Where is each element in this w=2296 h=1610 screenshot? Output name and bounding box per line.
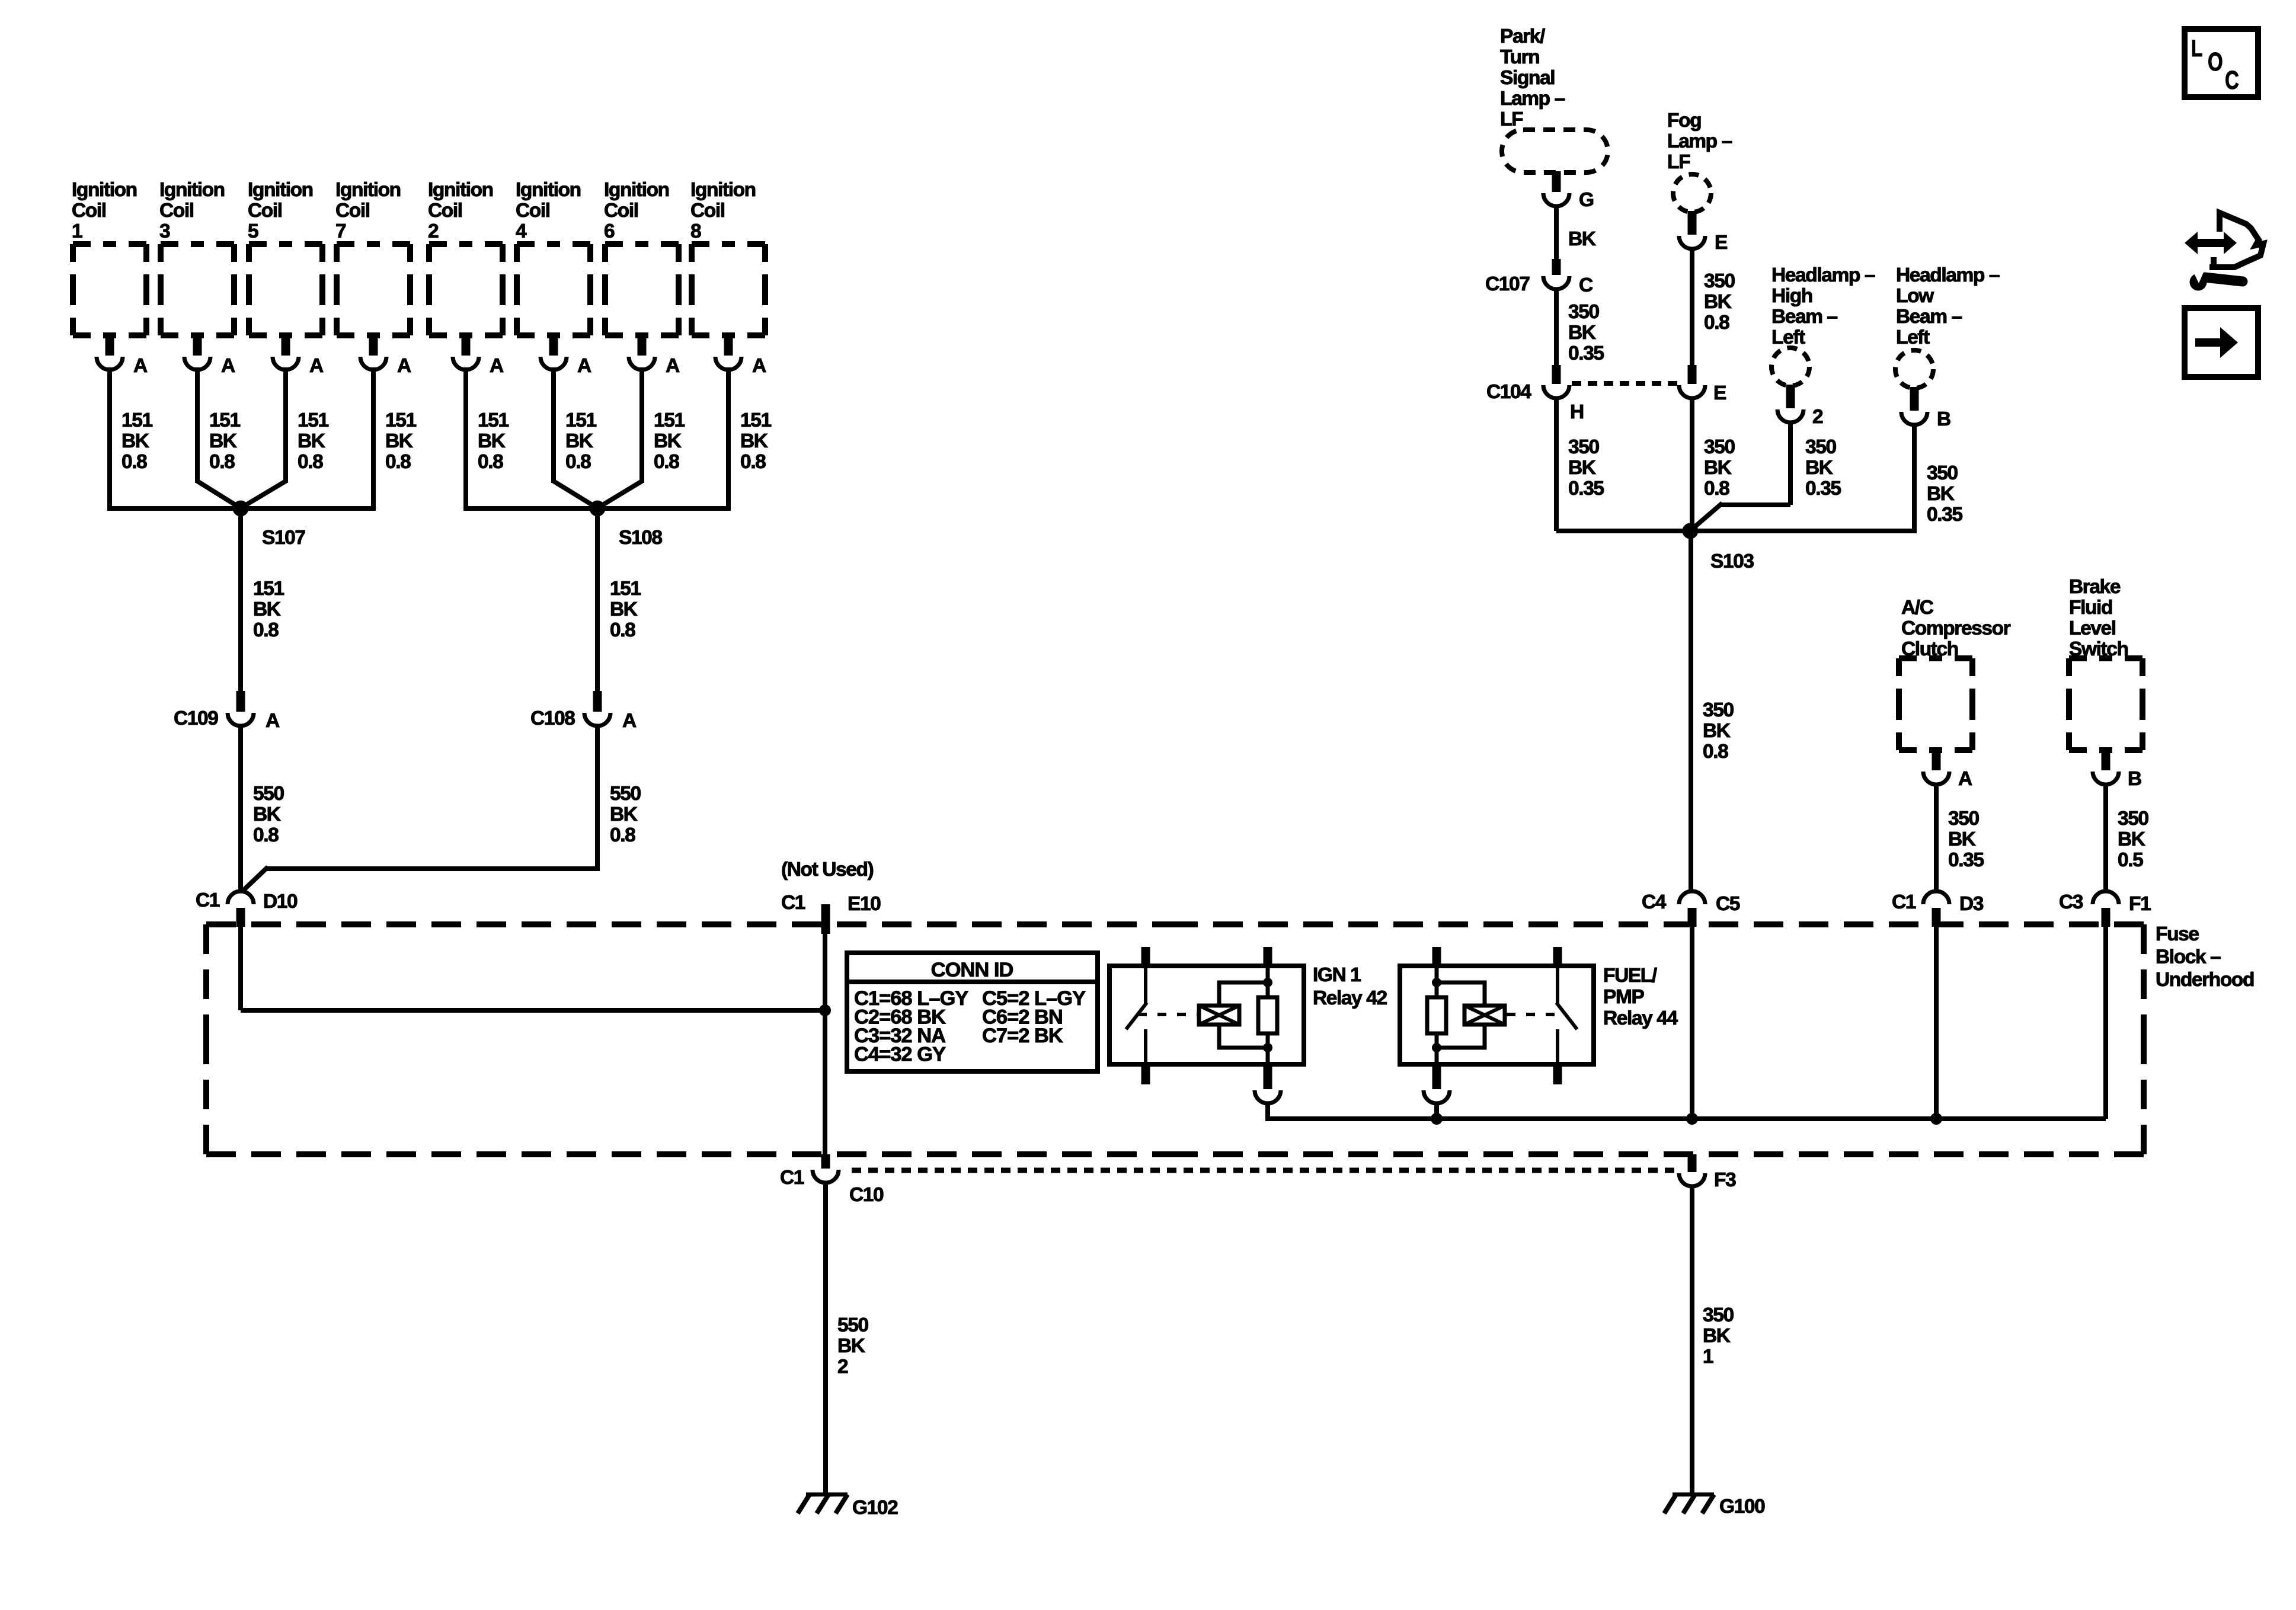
label 151 BK 0.8 (coil 7) bbox=[385, 409, 416, 473]
svg-text:4: 4 bbox=[516, 220, 527, 242]
svg-text:Fuse: Fuse bbox=[2156, 923, 2199, 945]
svg-text:Level: Level bbox=[2069, 617, 2116, 639]
svg-text:A: A bbox=[266, 710, 280, 732]
svg-text:LF: LF bbox=[1667, 151, 1690, 173]
ignition coil 7 pin A bbox=[360, 335, 411, 377]
relay IGN1 pin 85 cup bbox=[1255, 1064, 1281, 1103]
svg-text:0.8: 0.8 bbox=[298, 451, 323, 473]
wire F1 into block bbox=[2103, 924, 2108, 1119]
ignition coil 1 pin A bbox=[97, 335, 148, 377]
label 151 BK 0.8 (coil 1) bbox=[121, 409, 152, 473]
svg-text:High: High bbox=[1771, 285, 1812, 307]
connector C4/C5 bbox=[1642, 891, 1740, 927]
svg-text:BK: BK bbox=[209, 430, 237, 452]
park/turn signal lamp label bbox=[1500, 25, 1565, 130]
svg-text:Headlamp –: Headlamp – bbox=[1896, 264, 2000, 286]
svg-text:D10: D10 bbox=[263, 891, 298, 913]
headlamp - high beam - left bbox=[1771, 348, 1809, 386]
svg-text:BK: BK bbox=[740, 430, 768, 452]
label 151 BK 0.8 (C108) bbox=[610, 578, 641, 641]
svg-text:151: 151 bbox=[385, 409, 416, 431]
svg-text:BK: BK bbox=[610, 804, 638, 825]
relay FUEL pin 85 cup bbox=[1424, 1064, 1450, 1103]
connector C1/D10 bbox=[196, 889, 298, 927]
label 350 BK 0.5 (brake) bbox=[2118, 808, 2148, 871]
svg-text:2: 2 bbox=[837, 1356, 848, 1378]
ignition coil 1 bbox=[73, 244, 146, 335]
svg-text:L: L bbox=[2191, 35, 2202, 62]
svg-text:A: A bbox=[1958, 768, 1972, 790]
svg-text:BK: BK bbox=[298, 430, 325, 452]
fuse block label bbox=[2156, 923, 2254, 991]
node bus-D3 bbox=[1930, 1113, 1942, 1125]
svg-text:H: H bbox=[1570, 401, 1584, 423]
svg-text:Underhood: Underhood bbox=[2156, 969, 2254, 991]
label 350 BK 0.35 (A/C) bbox=[1948, 808, 1984, 871]
svg-text:BK: BK bbox=[253, 598, 281, 620]
connector C1/E10 (not used pin) bbox=[781, 892, 881, 934]
svg-text:0.8: 0.8 bbox=[1703, 741, 1728, 763]
relay FUEL node top bbox=[1432, 978, 1441, 987]
ignition coil 4 pin A bbox=[541, 335, 591, 377]
svg-text:C4=32 GY: C4=32 GY bbox=[854, 1044, 946, 1066]
svg-text:1: 1 bbox=[1703, 1346, 1713, 1368]
svg-text:F3: F3 bbox=[1714, 1169, 1736, 1191]
ignition coil 8 label bbox=[690, 179, 756, 242]
relay IGN1 switch bbox=[1126, 966, 1147, 1064]
relay FUEL coil bbox=[1464, 1006, 1505, 1025]
svg-text:Coil: Coil bbox=[248, 200, 282, 222]
svg-text:151: 151 bbox=[740, 409, 771, 431]
svg-text:PMP: PMP bbox=[1603, 986, 1644, 1008]
wire C10 to G102 bbox=[823, 1181, 828, 1494]
svg-text:0.8: 0.8 bbox=[654, 451, 679, 473]
svg-text:0.8: 0.8 bbox=[253, 824, 279, 846]
svg-text:Ignition: Ignition bbox=[72, 179, 137, 201]
svg-text:O: O bbox=[2208, 48, 2223, 77]
connector C3/F1 bbox=[2059, 891, 2151, 927]
svg-text:0.8: 0.8 bbox=[385, 451, 411, 473]
svg-text:FUEL/: FUEL/ bbox=[1603, 965, 1657, 987]
relay FUEL pin top-right bbox=[1553, 947, 1562, 966]
relay IGN1 node bottom bbox=[1263, 1043, 1272, 1052]
wire C109 to D10 bbox=[238, 724, 243, 892]
svg-text:0.8: 0.8 bbox=[209, 451, 235, 473]
label 350 BK 0.35 (low) bbox=[1927, 462, 1962, 526]
ignition coil 4 label bbox=[516, 179, 581, 242]
fog lamp - LF bbox=[1673, 174, 1711, 212]
svg-text:Lamp –: Lamp – bbox=[1500, 88, 1565, 110]
svg-text:1: 1 bbox=[72, 220, 82, 242]
svg-text:Relay 42: Relay 42 bbox=[1313, 987, 1387, 1009]
svg-text:C: C bbox=[2225, 66, 2239, 95]
label 151 BK 0.8 (coil 3) bbox=[209, 409, 240, 473]
svg-text:Coil: Coil bbox=[159, 200, 194, 222]
CONN ID row 4 bbox=[854, 1044, 946, 1066]
svg-text:G: G bbox=[1579, 189, 1594, 211]
relay FUEL pin top-left bbox=[1432, 947, 1441, 966]
wire C104 H to S103 bbox=[1556, 396, 1690, 531]
relay IGN1 pin top-right bbox=[1264, 947, 1272, 966]
relay IGN1 coil link (dashed) bbox=[1138, 1013, 1199, 1016]
svg-text:Coil: Coil bbox=[72, 200, 106, 222]
svg-text:E: E bbox=[1713, 382, 1726, 404]
ignition coil 5 label bbox=[248, 179, 313, 242]
svg-text:BK: BK bbox=[837, 1335, 865, 1357]
label 151 BK 0.8 (C109) bbox=[253, 578, 284, 641]
svg-text:Beam –: Beam – bbox=[1896, 306, 1962, 328]
svg-text:2: 2 bbox=[1812, 406, 1823, 428]
headlamp low beam label bbox=[1896, 264, 2000, 348]
connector C104 link (dashed) bbox=[1572, 381, 1678, 386]
svg-text:0.35: 0.35 bbox=[1948, 849, 1984, 871]
svg-text:Ignition: Ignition bbox=[690, 179, 756, 201]
wire C5 into block bbox=[1690, 924, 1694, 1119]
ignition coil 2 label bbox=[428, 179, 493, 242]
svg-text:0.8: 0.8 bbox=[1704, 312, 1729, 334]
svg-text:Ignition: Ignition bbox=[428, 179, 493, 201]
svg-text:Ignition: Ignition bbox=[604, 179, 669, 201]
node bus-FUEL bbox=[1431, 1113, 1443, 1125]
wire C108 drop bbox=[595, 508, 600, 691]
svg-text:C108: C108 bbox=[530, 708, 575, 729]
ignition coil 6 label bbox=[604, 179, 669, 242]
connector C108 pin A bbox=[530, 691, 637, 732]
svg-text:350: 350 bbox=[1703, 699, 1734, 721]
svg-text:BK: BK bbox=[478, 430, 506, 452]
ignition coil 1 label bbox=[72, 179, 137, 242]
svg-text:151: 151 bbox=[565, 409, 596, 431]
ignition coil 5 bbox=[249, 244, 322, 335]
wire D3 into block bbox=[1934, 924, 1939, 1119]
relay IGN1 resistor bbox=[1258, 997, 1277, 1033]
brake fluid level switch label bbox=[2069, 576, 2128, 660]
svg-text:BK: BK bbox=[253, 804, 281, 825]
svg-text:A: A bbox=[622, 710, 637, 732]
svg-text:550: 550 bbox=[253, 783, 284, 805]
svg-text:F1: F1 bbox=[2129, 893, 2151, 915]
icon double arrow bbox=[2185, 232, 2237, 254]
wire C104 E to S103 bbox=[1690, 396, 1694, 529]
svg-text:Ignition: Ignition bbox=[159, 179, 225, 201]
headlamp - low beam - left bbox=[1895, 350, 1933, 388]
connector row C10 (dotted) bbox=[852, 1168, 1675, 1173]
svg-text:A: A bbox=[133, 355, 148, 377]
brake fluid pin B bbox=[2093, 750, 2141, 790]
svg-text:Coil: Coil bbox=[335, 200, 370, 222]
relay FUEL coil link (dashed) bbox=[1505, 1013, 1566, 1016]
svg-text:151: 151 bbox=[253, 578, 284, 600]
svg-text:0.8: 0.8 bbox=[610, 619, 635, 641]
node bus-C5 bbox=[1686, 1113, 1698, 1125]
svg-text:C1: C1 bbox=[196, 889, 220, 911]
CONN ID table frame bbox=[847, 953, 1098, 1071]
svg-text:350: 350 bbox=[1927, 462, 1958, 484]
svg-text:151: 151 bbox=[209, 409, 240, 431]
svg-text:A: A bbox=[490, 355, 504, 377]
svg-text:Fluid: Fluid bbox=[2069, 597, 2112, 619]
svg-text:Fog: Fog bbox=[1667, 110, 1701, 132]
svg-text:Compressor: Compressor bbox=[1901, 617, 2011, 639]
svg-text:6: 6 bbox=[604, 220, 615, 242]
svg-text:S107: S107 bbox=[262, 527, 305, 549]
headlamp high pin 2 bbox=[1777, 385, 1823, 428]
svg-text:A: A bbox=[577, 355, 591, 377]
svg-text:350: 350 bbox=[2118, 808, 2148, 830]
svg-text:350: 350 bbox=[1704, 270, 1735, 292]
CONN ID row 1 bbox=[854, 987, 1086, 1010]
svg-text:0.8: 0.8 bbox=[478, 451, 503, 473]
ignition coil 3 label bbox=[159, 179, 225, 242]
svg-text:C7=2 BK: C7=2 BK bbox=[982, 1025, 1063, 1047]
svg-text:151: 151 bbox=[121, 409, 152, 431]
ignition coil 3 pin A bbox=[184, 335, 235, 377]
ignition coil 5 pin A bbox=[273, 335, 324, 377]
svg-text:151: 151 bbox=[654, 409, 685, 431]
wire D10 into block bbox=[241, 924, 825, 1010]
relay FUEL coil wiring bbox=[1437, 966, 1485, 1064]
svg-text:Ignition: Ignition bbox=[335, 179, 401, 201]
svg-text:BK: BK bbox=[1704, 291, 1732, 313]
wire C108 to D10 bbox=[243, 724, 600, 891]
label 151 BK 0.8 (coil 2) bbox=[478, 409, 509, 473]
label 151 BK 0.8 (coil 8) bbox=[740, 409, 771, 473]
wire A to D3 bbox=[1934, 783, 1939, 892]
svg-text:C1: C1 bbox=[780, 1167, 804, 1189]
brake fluid level switch bbox=[2069, 658, 2142, 750]
wire coil 5 to S107 bbox=[243, 367, 286, 507]
relay IGN1 node top bbox=[1263, 978, 1272, 987]
svg-text:S103: S103 bbox=[1710, 550, 1754, 572]
svg-text:Brake: Brake bbox=[2069, 576, 2121, 598]
label 151 BK 0.8 (coil 5) bbox=[298, 409, 328, 473]
svg-text:B: B bbox=[1937, 408, 1950, 430]
icon animal head bbox=[2209, 213, 2263, 268]
wire coil 3 to S107 bbox=[197, 367, 238, 507]
wire low beam to S103 bbox=[1690, 423, 1917, 531]
svg-text:C109: C109 bbox=[174, 708, 218, 729]
splice S107 bbox=[233, 501, 306, 549]
svg-text:Left: Left bbox=[1771, 327, 1805, 348]
svg-text:E10: E10 bbox=[848, 893, 881, 915]
svg-text:BK: BK bbox=[1704, 457, 1732, 479]
splice S108 bbox=[590, 501, 663, 549]
fuse block - underhood (dashed border) bbox=[206, 924, 2144, 1154]
headlamp low pin B bbox=[1901, 387, 1950, 430]
svg-text:550: 550 bbox=[610, 783, 641, 805]
svg-text:Ignition: Ignition bbox=[248, 179, 313, 201]
svg-text:Beam –: Beam – bbox=[1771, 306, 1838, 328]
wire C109 drop bbox=[238, 508, 243, 691]
svg-text:7: 7 bbox=[335, 220, 346, 242]
svg-text:C104: C104 bbox=[1486, 381, 1531, 403]
svg-text:Coil: Coil bbox=[516, 200, 550, 222]
svg-text:Relay 44: Relay 44 bbox=[1603, 1007, 1678, 1029]
svg-text:0.35: 0.35 bbox=[1805, 478, 1841, 500]
wire B to F1 bbox=[2103, 783, 2108, 892]
svg-text:B: B bbox=[2128, 768, 2141, 790]
CONN ID row 2 bbox=[854, 1006, 1063, 1029]
svg-text:0.8: 0.8 bbox=[1704, 478, 1729, 500]
ignition coil 3 bbox=[161, 244, 234, 335]
relay FUEL resistor bbox=[1427, 997, 1446, 1033]
wire S103 to C5 bbox=[1689, 531, 1693, 892]
wire fog to C104 bbox=[1690, 247, 1694, 365]
relay FUEL pin bottom-right bbox=[1553, 1064, 1562, 1084]
label 350 BK 0.8 (E) bbox=[1704, 436, 1735, 500]
ignition coil 4 bbox=[517, 244, 590, 335]
a/c clutch pin A bbox=[1923, 750, 1972, 790]
svg-text:BK: BK bbox=[1805, 457, 1833, 479]
svg-text:BK: BK bbox=[565, 430, 593, 452]
headlamp high beam label bbox=[1771, 264, 1875, 348]
connector C109 pin A bbox=[174, 691, 280, 732]
svg-text:S108: S108 bbox=[619, 527, 662, 549]
label 350 BK 1 bbox=[1703, 1304, 1734, 1368]
icon arrow box bbox=[2185, 308, 2258, 377]
connector C1/C10 bbox=[780, 1154, 884, 1206]
icon LOC box bbox=[2185, 29, 2258, 97]
svg-text:Turn: Turn bbox=[1500, 46, 1539, 68]
svg-text:A: A bbox=[666, 355, 680, 377]
node E10 junction bbox=[819, 1004, 831, 1016]
svg-text:A: A bbox=[752, 355, 766, 377]
svg-text:BK: BK bbox=[1927, 483, 1955, 505]
svg-text:Park/: Park/ bbox=[1500, 25, 1545, 47]
svg-text:350: 350 bbox=[1805, 436, 1836, 458]
svg-text:BK: BK bbox=[121, 430, 149, 452]
ground G100 bbox=[1664, 1494, 1765, 1518]
svg-text:BK: BK bbox=[1568, 322, 1596, 344]
svg-text:Signal: Signal bbox=[1500, 67, 1555, 89]
svg-text:G100: G100 bbox=[1719, 1496, 1765, 1518]
wire coil 7 to S107 bbox=[241, 367, 376, 508]
svg-text:BK: BK bbox=[385, 430, 413, 452]
svg-text:BK: BK bbox=[1948, 828, 1976, 850]
label 350 BK 0.8 (fog) bbox=[1704, 270, 1735, 334]
svg-text:C3: C3 bbox=[2059, 891, 2083, 913]
svg-text:8: 8 bbox=[690, 220, 701, 242]
relay IGN1 pin bottom-left bbox=[1141, 1064, 1150, 1084]
svg-text:Ignition: Ignition bbox=[516, 179, 581, 201]
label 350 BK 0.8 (S103-C5) bbox=[1703, 699, 1734, 763]
a/c compressor clutch bbox=[1899, 658, 1972, 750]
label 550 BK 0.8 (C108) bbox=[610, 783, 641, 846]
ignition coil 2 bbox=[429, 244, 503, 335]
connector C107 pin C bbox=[1485, 259, 1593, 296]
ignition coil 7 label bbox=[335, 179, 401, 242]
label 151 BK 0.8 (coil 6) bbox=[654, 409, 685, 473]
svg-text:C107: C107 bbox=[1485, 273, 1530, 295]
svg-text:BK: BK bbox=[654, 430, 682, 452]
svg-text:3: 3 bbox=[159, 220, 170, 242]
wire F3 to G100 bbox=[1690, 1185, 1694, 1494]
fog lamp label bbox=[1667, 110, 1732, 173]
wire C to C104 bbox=[1554, 287, 1559, 365]
park/turn lamp pin G bbox=[1543, 171, 1594, 211]
ignition coil 6 bbox=[605, 244, 679, 335]
label BK bbox=[1568, 228, 1596, 250]
label 151 BK 0.8 (coil 4) bbox=[565, 409, 596, 473]
svg-text:550: 550 bbox=[837, 1314, 868, 1336]
svg-text:0.8: 0.8 bbox=[121, 451, 147, 473]
relay FUEL box bbox=[1400, 966, 1594, 1064]
svg-text:E: E bbox=[1715, 232, 1728, 254]
svg-text:(Not Used): (Not Used) bbox=[781, 859, 874, 881]
svg-text:5: 5 bbox=[248, 220, 258, 242]
svg-text:A: A bbox=[221, 355, 235, 377]
relay IGN1 coil wiring bbox=[1219, 966, 1268, 1064]
svg-text:CONN ID: CONN ID bbox=[931, 959, 1013, 981]
svg-text:BK: BK bbox=[1568, 457, 1596, 479]
relay IGN1 pin top-left bbox=[1141, 947, 1150, 966]
svg-text:350: 350 bbox=[1568, 301, 1599, 323]
svg-text:350: 350 bbox=[1568, 436, 1599, 458]
ignition coil 6 pin A bbox=[629, 335, 680, 377]
svg-text:C5: C5 bbox=[1716, 893, 1740, 915]
wire coil 8 to S108 bbox=[597, 367, 731, 508]
svg-text:Block –: Block – bbox=[2156, 946, 2221, 968]
CONN ID title bbox=[931, 959, 1013, 981]
wire E10 down to C10 bbox=[823, 934, 827, 1156]
wire coil 4 to S108 bbox=[554, 367, 595, 507]
wire coil 6 to S108 bbox=[600, 367, 642, 507]
svg-text:C1: C1 bbox=[781, 892, 805, 914]
splice S103 bbox=[1683, 523, 1754, 573]
svg-text:151: 151 bbox=[298, 409, 328, 431]
svg-text:Low: Low bbox=[1896, 285, 1934, 307]
wire G to C107 bbox=[1554, 204, 1559, 259]
svg-text:Headlamp –: Headlamp – bbox=[1771, 264, 1875, 286]
park/turn signal lamp - LF bbox=[1502, 130, 1608, 172]
label 550 BK 2 bbox=[837, 1314, 868, 1378]
ignition coil 8 pin A bbox=[715, 335, 766, 377]
ignition coil 7 bbox=[337, 244, 410, 335]
ground G102 bbox=[798, 1494, 898, 1519]
svg-text:Left: Left bbox=[1896, 327, 1930, 348]
svg-text:BK: BK bbox=[1568, 228, 1596, 250]
connector C104 pin H bbox=[1486, 365, 1584, 423]
svg-text:Coil: Coil bbox=[690, 200, 725, 222]
svg-text:BK: BK bbox=[2118, 828, 2145, 850]
svg-text:2: 2 bbox=[428, 220, 439, 242]
relay FUEL node bottom bbox=[1432, 1043, 1441, 1052]
label 350 BK 0.35 (H) bbox=[1568, 436, 1604, 500]
svg-text:C10: C10 bbox=[849, 1184, 884, 1206]
relay FUEL switch bbox=[1556, 966, 1577, 1064]
connector C104 pin E bbox=[1679, 365, 1726, 404]
svg-text:0.35: 0.35 bbox=[1568, 343, 1604, 364]
svg-text:0.8: 0.8 bbox=[610, 824, 635, 846]
svg-text:A: A bbox=[397, 355, 411, 377]
wire coil 2 to S108 bbox=[463, 367, 597, 508]
relay FUEL label bbox=[1603, 965, 1678, 1029]
relay IGN1 label bbox=[1313, 964, 1387, 1009]
fog lamp pin E bbox=[1679, 211, 1728, 254]
svg-text:Coil: Coil bbox=[428, 200, 462, 222]
ignition coil 8 bbox=[692, 244, 765, 335]
svg-text:151: 151 bbox=[478, 409, 509, 431]
svg-text:350: 350 bbox=[1948, 808, 1979, 830]
svg-text:D3: D3 bbox=[1959, 893, 1984, 915]
svg-text:BK: BK bbox=[1703, 720, 1731, 742]
svg-text:A: A bbox=[309, 355, 324, 377]
svg-text:0.8: 0.8 bbox=[565, 451, 591, 473]
svg-text:Coil: Coil bbox=[604, 200, 638, 222]
label 550 BK 0.8 (C109) bbox=[253, 783, 284, 846]
wire high beam to S103 bbox=[1693, 421, 1790, 529]
svg-text:BK: BK bbox=[610, 598, 638, 620]
